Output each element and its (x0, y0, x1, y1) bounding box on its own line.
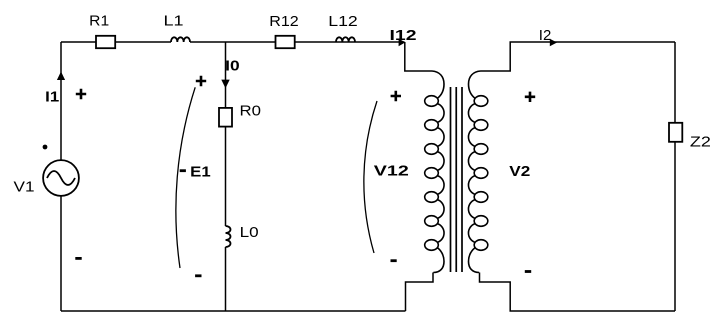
svg-text:L12: L12 (328, 13, 358, 30)
svg-text:Z2: Z2 (690, 134, 711, 151)
svg-text:I2: I2 (539, 27, 552, 44)
svg-text:V2: V2 (509, 163, 530, 180)
svg-text:E1: E1 (190, 163, 211, 180)
svg-text:I1: I1 (45, 89, 59, 106)
svg-text:I12: I12 (390, 27, 417, 44)
svg-text:L0: L0 (240, 224, 259, 241)
svg-text:I0: I0 (225, 58, 240, 75)
svg-text:V1: V1 (14, 179, 35, 196)
svg-text:R1: R1 (89, 13, 109, 30)
svg-text:V12: V12 (374, 163, 409, 180)
svg-text:L1: L1 (164, 13, 184, 30)
svg-text:R0: R0 (240, 103, 262, 120)
svg-text:R12: R12 (269, 13, 299, 30)
